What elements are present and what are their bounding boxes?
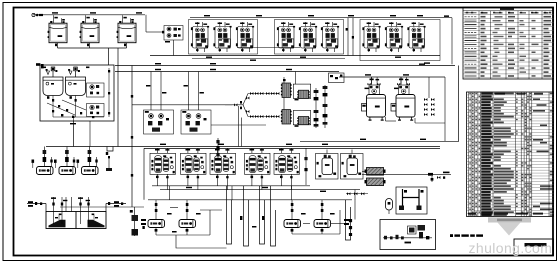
drain L-pipe [176, 235, 227, 248]
HX circulation pump column B [323, 85, 328, 128]
header label M3 [395, 57, 401, 58]
dosing pump unit D2 [87, 104, 105, 117]
top skid unit S3 [236, 22, 254, 52]
mid skid unit K4 [245, 148, 271, 189]
bottom header pipe y200 [148, 199, 352, 201]
skid group frame A [189, 20, 258, 55]
U-pipe top stubs [227, 186, 271, 196]
skid group frame C [360, 20, 440, 61]
condensate box marks [330, 75, 342, 80]
pipe label L5 [256, 15, 262, 16]
transfer line to sample area [346, 194, 368, 220]
pipe label L1 [52, 12, 58, 13]
storage tank T3 [117, 15, 136, 43]
legend table frame [463, 7, 554, 79]
mid skid unit K1 [150, 148, 176, 189]
feed pump riser F1 [43, 147, 47, 167]
top skid unit S4 [277, 22, 295, 52]
sample cooler box B [380, 220, 436, 250]
U-pipe loop 1 [227, 196, 232, 244]
vessel unit VU2 [341, 150, 364, 180]
dosing box corner flag [36, 63, 44, 68]
HX bottom marks [283, 79, 299, 127]
HX branch lower chain [243, 105, 279, 118]
mid skid unit K5 [274, 148, 300, 189]
BP4 to riser pipe [331, 223, 346, 225]
bottom long pipe y207 [60, 206, 144, 208]
softener valve column cluster [424, 77, 434, 116]
pipe label L4 [204, 15, 210, 16]
bottom pump capsule BP4 [314, 220, 331, 228]
capsule outlet valves [50, 160, 97, 163]
mid header pipe pair [46, 146, 440, 148]
pump capsule CP2 [59, 167, 76, 175]
BX riser labels [146, 85, 204, 94]
plate heat exchanger HX1 [281, 83, 292, 98]
plate heat exchanger HX2 [297, 90, 309, 98]
mid header labels [160, 144, 166, 145]
dosing pump unit D1 [87, 83, 105, 97]
watermark banner text [497, 219, 522, 222]
standpipe x218 [215, 138, 221, 161]
pipe label L6 [308, 15, 314, 16]
skid group frame B [275, 20, 344, 55]
expansion box C [396, 187, 427, 214]
U-pipe labels [240, 216, 264, 228]
pump capsule CP1 [37, 167, 54, 175]
equipment table frame [467, 92, 554, 217]
bottom pump group west riser marks [141, 219, 146, 229]
skid return pipe y58.5 [192, 58, 345, 60]
top skid unit S2 [213, 22, 231, 52]
top skid unit S5 [299, 22, 317, 52]
top skid unit S6 [321, 22, 339, 52]
return pipe labels [250, 60, 256, 61]
dosing box outlet pipe [73, 121, 75, 147]
basin riser valves [51, 197, 90, 205]
softener feed labels [365, 74, 371, 75]
jog drain fitting [106, 158, 112, 171]
U-pipe loop 2b [260, 196, 265, 244]
pipe label L8 [390, 15, 396, 16]
equipment table entries [469, 92, 552, 216]
east return pipe x455 [458, 66, 460, 142]
tank drop pipes [58, 43, 127, 147]
vertical pipe x132 [131, 66, 133, 208]
neutralization basin [46, 212, 106, 229]
storage tank T1 [48, 15, 67, 43]
flash vessel [386, 199, 393, 215]
condensate box [329, 73, 345, 83]
bottom pump piping west [156, 200, 222, 235]
west pump valve marks [155, 203, 201, 233]
basin inlet risers [54, 197, 89, 224]
mixer tank MT1 [43, 67, 63, 99]
feed pump riser F3 [88, 147, 92, 167]
dosing box frame [40, 65, 114, 121]
header label M2 [300, 57, 306, 58]
pump capsule CP3 [82, 167, 99, 175]
watermark arrow [498, 223, 521, 236]
top skid unit S7 [362, 22, 380, 52]
vessel unit VU1 [316, 150, 339, 180]
mid-row west pipe x144 [143, 148, 145, 199]
junction drop pipes [238, 106, 240, 147]
mixer second outlet pipe [89, 121, 91, 147]
jog valve [106, 152, 110, 158]
equipment table header row [495, 93, 543, 95]
top header pipe [33, 14, 145, 16]
top skid unit S8 [385, 22, 403, 52]
top skid unit S9 [407, 22, 425, 52]
inlet valve V0 [32, 13, 43, 16]
pipe label L7 [348, 15, 354, 16]
condensate pipe y174.3 [362, 172, 451, 182]
mid-row bottom collect pipes [152, 186, 360, 200]
branch pipe y47.5 [237, 47, 300, 49]
feed pump riser F2 [65, 147, 69, 167]
top skid unit S1 [191, 22, 209, 52]
vessel-exchanger link pipe [362, 170, 367, 172]
U-pipe loop 2 [244, 196, 249, 246]
softener tank ST2 [391, 78, 415, 121]
header jog [107, 147, 113, 152]
small valve chain left of box C [347, 192, 364, 195]
title block box [514, 239, 554, 256]
capsule inlet flags [32, 160, 80, 163]
mid skid unit K3 [210, 148, 236, 189]
inter-group pipe marks [346, 28, 354, 39]
HX circulation pump column A [314, 88, 319, 128]
drain pump column x134 [130, 207, 138, 236]
east pump valve marks [291, 203, 349, 232]
BP4 outlet riser blocks [349, 219, 352, 236]
legend table symbols and labels [465, 12, 552, 77]
standpipe x306 [304, 148, 307, 185]
header east elbow [440, 18, 452, 65]
softener riser pipes [372, 77, 446, 141]
small transfer pump pair P0 [146, 15, 183, 43]
x132 valve marks [131, 95, 133, 177]
small pump skid BX1 [144, 110, 174, 134]
HX feed junction valves [234, 101, 242, 109]
svg-text:zhulong.com: zhulong.com [469, 240, 553, 256]
transfer pipe label [360, 139, 366, 140]
drop valve marks [55, 44, 126, 47]
HX west pipe to x225 [225, 104, 232, 106]
header east label [444, 15, 449, 17]
transfer pipe y141.3 [300, 140, 459, 142]
storage tank T2 [80, 15, 99, 43]
watermark banner bar [488, 217, 531, 222]
right fitting cluster near table [437, 176, 445, 179]
bottom pump piping east [292, 200, 340, 234]
HX riser pipes [284, 72, 296, 110]
HX branch upper chain [243, 92, 279, 105]
mid skid unit K2 [181, 148, 207, 189]
mixer tank MT2 [66, 67, 86, 99]
BX outlet pipe [211, 124, 266, 126]
BX riser pipes [151, 72, 199, 111]
softener feed pipe y77 [339, 76, 445, 78]
pipe label L2 [90, 12, 96, 13]
lower header pipe y55 [150, 55, 440, 57]
HX3 secondary frame [293, 111, 310, 125]
inter-group pipes x348/x353 [348, 18, 353, 56]
bottom pump capsule BP2 [179, 220, 196, 228]
dosing box valve dots [43, 67, 110, 119]
plate heat exchanger HX4 [297, 117, 309, 125]
supply labels [155, 63, 161, 64]
mid-row bottom labels [186, 187, 192, 188]
long supply pipe y71.5 [115, 71, 339, 73]
stacked exchanger EX1 [365, 168, 386, 176]
dosing box label [70, 123, 76, 124]
bottom pump capsule BP1 [148, 220, 165, 228]
HX feed pipe y104.8 [132, 104, 243, 106]
capsule outlet risers [52, 157, 97, 167]
bottom pump capsule BP3 [284, 220, 301, 228]
softener riser labels [365, 88, 399, 90]
plate heat exchanger HX3 [281, 110, 292, 125]
dosing box internal pipes [47, 68, 109, 121]
header label M1 [206, 57, 212, 58]
softener tank ST1 [362, 78, 386, 121]
P0 drop pipe [173, 40, 175, 56]
basin right feed pipe [106, 201, 126, 211]
skid header pipe y17.7 [190, 17, 440, 19]
note text line [450, 234, 483, 237]
small pump skid BX2 [181, 110, 211, 134]
pipe label L3 [136, 12, 142, 13]
long supply pipe y65.5 [115, 65, 455, 67]
HX1 secondary frame [293, 84, 310, 98]
stacked exchanger EX2 [365, 178, 386, 186]
group C label [419, 64, 425, 65]
U-pipe loop 3 [271, 196, 276, 246]
basin left feed pipe [27, 201, 46, 211]
U-pipe loop 3b [346, 200, 351, 240]
equipment table footer row [468, 213, 543, 215]
